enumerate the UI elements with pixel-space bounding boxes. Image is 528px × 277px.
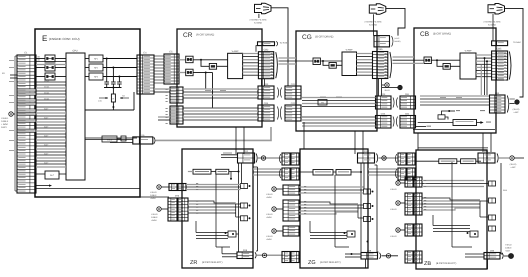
connector strip ZB4 (top right, straddles edge) <box>478 153 495 163</box>
mating bracket of ZR2 <box>256 154 257 163</box>
wires U1 to U2-U4 <box>85 58 89 60</box>
svg-text:SHLD: SHLD <box>384 89 390 92</box>
mating brackets CR4 <box>278 107 279 120</box>
wire CB bottom to ZB top pair <box>482 133 484 152</box>
long wires across CG lower half <box>302 97 376 99</box>
long wire inside E bottom <box>36 188 140 190</box>
capacitor C1 <box>106 58 108 60</box>
svg-text:CPU: CPU <box>72 50 77 53</box>
wire P3 stem <box>492 14 494 19</box>
wires CR5 to pair CR3 <box>183 88 258 90</box>
svg-text:(R CRT DEFLECT): (R CRT DEFLECT) <box>202 261 223 264</box>
wires to ZR4 <box>196 232 228 234</box>
wires into ZR9 from left <box>222 253 237 255</box>
shield circle W18 right of CG (filled) <box>382 87 398 89</box>
regulator box B1 in ZR <box>193 169 211 174</box>
wires ZG5 to pin symbols <box>299 186 364 188</box>
pin symbol ZG3a <box>364 189 371 194</box>
connector strip ZG6 left edge <box>283 200 299 221</box>
wires B1-B2 in ZR <box>188 171 193 173</box>
svg-text:(R CRT DRIVE): (R CRT DRIVE) <box>196 34 214 37</box>
svg-text:(+NOISE FILTER): (+NOISE FILTER) <box>365 21 382 24</box>
big mating bracket of CR2 <box>276 52 278 78</box>
svg-text:+NAVI: +NAVI <box>151 219 157 222</box>
svg-text:(+NOISE FILTER): (+NOISE FILTER) <box>484 21 501 24</box>
svg-text:BAND): BAND) <box>395 40 401 43</box>
connector pair CG4 in-half <box>376 116 392 129</box>
interior vertical wires ZG <box>334 175 336 247</box>
connector pair CB3 <box>490 95 506 113</box>
stub wire right of CG4-out <box>416 126 427 128</box>
svg-text:CG4: CG4 <box>381 112 386 115</box>
svg-text:CG1: CG1 <box>291 83 296 86</box>
wire P1 to CR right area <box>271 8 288 86</box>
noise filter plug P2 <box>369 4 386 15</box>
capacitor C3 <box>118 76 120 78</box>
wire rows from connector E1 to U1 upper pins <box>36 61 66 63</box>
vertical drop wires CR2 to CR3 <box>261 79 263 86</box>
harness bracket left of connector E1 <box>14 56 16 191</box>
outside vertical wire right of ZB <box>500 163 502 254</box>
interior vertical wires ZR <box>215 174 217 247</box>
wires into AB1 <box>418 122 453 124</box>
coil box L3 in CB <box>443 64 450 70</box>
shield circle W8 left of ZG <box>272 187 276 191</box>
outside vertical wire right of ZR <box>257 167 259 251</box>
wire CB bottom to ZB top left <box>417 133 419 148</box>
arrow box AB1 (to multi-display) at bottom of CB <box>453 120 477 126</box>
connector pair ZR5 (small, left edge) <box>169 184 177 191</box>
pin symbol ZR3b <box>241 203 248 208</box>
svg-text:I-SHLD: I-SHLD <box>505 244 512 247</box>
connector strip CR6 (lower left edge of CR) <box>170 106 183 124</box>
connector pair ZG10 bottom left <box>282 252 290 263</box>
svg-text:+NAVI: +NAVI <box>266 216 272 219</box>
connector strip E1 (left of ECU) <box>17 55 36 193</box>
mating bracket of ZB4 <box>497 154 498 163</box>
capacitor C2 <box>112 67 114 69</box>
top strip TB3 of CB <box>492 41 508 46</box>
connector strip E4 (right edge of E) <box>137 55 154 94</box>
fuse box F1 in CR <box>186 56 193 63</box>
svg-text:CG: CG <box>302 34 312 41</box>
wire CR bottom to ZR top pair <box>235 127 237 154</box>
svg-text:I-SHLD: I-SHLD <box>390 235 397 238</box>
connector pair CR4 out-half <box>285 105 301 121</box>
pin symbol ZR3a <box>241 184 248 189</box>
wires from E up into CR6 <box>158 119 170 121</box>
wires CG5 to CB inputs (gray) <box>393 56 415 58</box>
wires ZR area to ZG2 (gray) <box>253 168 282 170</box>
mating bracket of ZR9 <box>255 252 256 258</box>
outside vertical wire right of ZG <box>376 165 378 252</box>
connector pair ZR6 (left edge) <box>168 198 177 221</box>
svg-text:DLC: DLC <box>50 174 55 177</box>
connector pair CG3 in-half <box>376 96 392 109</box>
connector strip CB5 (right edge of CB) <box>492 51 508 80</box>
connector pair CR4 in-half <box>258 105 274 121</box>
vertical wire pair from ZG4 down <box>360 163 362 253</box>
vertical from ZB9 to bottom edge <box>487 259 489 269</box>
fuse box F3 in CG <box>313 58 320 65</box>
shield circle W3 right of CB3 (filled) <box>515 100 520 105</box>
svg-text:I-SHLD: I-SHLD <box>151 213 158 216</box>
small box N2 at bottom of E <box>121 136 126 141</box>
wire resistor R1 to ground node <box>112 102 114 107</box>
CRT driver block CG outline <box>296 31 377 131</box>
connector pair CR3 in-half <box>258 86 274 99</box>
regulator box B4 in ZG <box>336 170 351 176</box>
mating bracket of TB2 <box>392 36 393 46</box>
big mating bracket of CG5 <box>390 52 392 78</box>
svg-text:CG3: CG3 <box>381 93 386 96</box>
pin symbol ZG3b <box>364 204 371 209</box>
wires ZR5 to pin symbols <box>186 184 241 186</box>
mating brackets CG4 <box>393 117 394 127</box>
shield circle W15 left of ZB <box>396 228 400 232</box>
driver box U3 (noise filter 2) inside E <box>89 64 103 71</box>
wire ZG9 to ZB bottom left <box>382 255 399 257</box>
mating bracket of ZG4 <box>377 154 378 163</box>
deflection block ZB outline <box>416 150 487 269</box>
svg-text:(SHLD): (SHLD) <box>513 108 520 111</box>
interior vertical wires ZB <box>451 162 453 247</box>
wires ZG2 to B3, B3 to B4 <box>299 171 313 173</box>
wire rows from connector E1 to relays K1-K3 <box>36 58 45 60</box>
svg-text:W-B: W-B <box>503 189 508 192</box>
wires M3 to connector CB5 <box>476 54 492 56</box>
wire U1 right to mid bus <box>85 137 137 139</box>
interior bottom wire of CB <box>413 129 495 131</box>
big mating bracket of CB5 <box>509 52 511 80</box>
connector pair ZG1 (left edge top) <box>279 154 280 163</box>
amp box M2 in CG <box>342 52 357 76</box>
svg-text:CG5: CG5 <box>378 48 384 51</box>
label box N1 at bottom of E <box>102 136 117 142</box>
connector strip ZG5 left edge <box>283 185 299 195</box>
shield circle W7 on wire <box>262 253 266 257</box>
svg-text:+NAVI: +NAVI <box>266 238 272 241</box>
shield circle W5 left of ZR <box>157 185 161 189</box>
wire F1 to M1 <box>193 59 228 61</box>
pin number speckle texts <box>271 52 273 55</box>
svg-text:SG: SG <box>122 95 125 98</box>
connector pair CG3 out-half <box>400 96 416 109</box>
svg-text:(B CRT DEFLECT): (B CRT DEFLECT) <box>436 262 456 265</box>
connector pair ZG2 (left edge) <box>279 169 280 178</box>
svg-text:CR3: CR3 <box>264 83 269 86</box>
svg-text:V-AMP: V-AMP <box>346 49 353 52</box>
bracket right of SP1 <box>276 41 277 46</box>
svg-text:V-AMP: V-AMP <box>465 50 472 53</box>
svg-text:E: E <box>42 34 47 43</box>
svg-text:(+NOISE FILTER): (+NOISE FILTER) <box>250 19 267 22</box>
ground return wire <box>85 109 134 111</box>
annotation arrows at resistor R1 <box>99 97 108 99</box>
wires from E4 area into CR5 (gray) <box>154 88 170 90</box>
wires ZB6 to pin symbols <box>422 198 480 200</box>
ground bus wire below capacitors <box>104 87 122 89</box>
pin symbol ZB3d <box>489 226 496 231</box>
shield circle W13 left of ZB <box>396 181 400 185</box>
wires between B5-B6 <box>415 160 439 162</box>
svg-text:I-SHLD: I-SHLD <box>1 117 9 120</box>
junction group ZG8 <box>347 231 355 237</box>
svg-text:I-SHLD: I-SHLD <box>266 235 273 238</box>
svg-text:V-AMP: V-AMP <box>232 50 239 53</box>
wires ZB5 to pin symbols <box>422 180 484 182</box>
CRT driver block CB outline <box>414 28 496 133</box>
mating bracket of E6 <box>154 137 155 143</box>
deflection block ZG outline <box>300 149 368 268</box>
coil box L2 in CG <box>329 63 336 69</box>
connector pair ZB1 (left edge top) <box>395 154 396 163</box>
wires U2-U4 to connector E4 <box>103 58 137 60</box>
svg-text:CABLE: CABLE <box>1 120 9 123</box>
connector strip ZG7 left edge <box>283 226 299 236</box>
connector pair ZB5 left edge <box>405 177 413 187</box>
pin symbol ZB3b <box>489 198 496 203</box>
wire L1 to M1 <box>217 65 228 67</box>
wires M1 to connector CR2 <box>243 53 259 55</box>
connector pair ZB10 bottom left <box>405 251 413 263</box>
wire P2 to CG right area <box>386 8 405 35</box>
shield circle W12 right of ZB4 <box>510 156 514 160</box>
wires to ZB8 <box>433 225 470 227</box>
connector strip ZR2 (top right, straddles edge) <box>238 153 255 163</box>
svg-text:CB5: CB5 <box>497 48 502 51</box>
svg-text:GND1: GND1 <box>44 97 49 100</box>
svg-text:I-SHLD: I-SHLD <box>390 188 397 191</box>
svg-text:CABLE: CABLE <box>150 194 157 197</box>
connector strip E6 (below E4) <box>133 137 153 144</box>
ECU block E outline <box>35 29 140 197</box>
svg-text:(SHLD): (SHLD) <box>510 163 517 166</box>
wire branch to L1 <box>200 59 202 61</box>
wires M2 to connector CG5 <box>357 53 373 55</box>
svg-text:+ANT: +ANT <box>513 111 519 114</box>
connector strip ZG9 bottom right <box>361 253 378 260</box>
wires into ZR2 from left <box>221 154 238 156</box>
pin symbol ZB3a <box>489 181 496 186</box>
shield circle W14 left of ZB <box>396 201 400 205</box>
diagnostic box U5 bottom left in E <box>45 171 59 179</box>
svg-text:GND1: GND1 <box>44 79 49 82</box>
svg-text:TO RGB: TO RGB <box>280 42 288 45</box>
driver box U4 (noise filter 3) inside E <box>89 73 103 80</box>
regulator box B3 in ZG <box>313 170 333 176</box>
svg-text:CB: CB <box>420 31 429 38</box>
vertical drop wires CB5 to CB3 <box>480 64 482 95</box>
pin symbol ZG3c <box>364 217 371 222</box>
shielded wire ZR9 to ZG bottom (gray) <box>257 254 282 256</box>
svg-text:I-SHLD: I-SHLD <box>150 191 157 194</box>
coil box L1 in CR <box>209 64 216 70</box>
connector strip CR2 (right edge of CR) <box>258 52 273 79</box>
tiny wire-code speckles left of connector E1 <box>9 59 14 62</box>
connector strip CG5 (right edge of CG) <box>373 52 388 79</box>
regulator box B2 in ZR <box>216 169 229 174</box>
amp box M1 in CR <box>228 53 243 78</box>
wires ZG area to ZB2 (gray) <box>368 168 398 170</box>
shielded cable symbol W1 at left connector <box>9 112 13 116</box>
shield circle W16 right of ZB9 (filled) <box>508 253 513 258</box>
wire F2 across <box>193 72 206 74</box>
connector pair CG4 out-half <box>400 116 416 129</box>
shield circle W6 left of ZR lower <box>157 207 161 211</box>
svg-text:TO NAVI: TO NAVI <box>513 41 521 44</box>
microcomputer box U1 (main ECM) inside E <box>66 53 85 180</box>
svg-text:(+N.F.: (+N.F. <box>395 37 401 40</box>
wires ZG4 to ZB left (gray) <box>379 157 399 159</box>
shield circle W17 on wire <box>382 156 386 160</box>
connector strip ZR9 bottom right <box>237 252 253 259</box>
wire down from F2 node <box>205 73 207 89</box>
connector pair ZB7 left edge <box>405 224 413 236</box>
wires ZG6 to pin symbols <box>299 202 358 204</box>
svg-text:+NAVI: +NAVI <box>150 197 156 200</box>
svg-text:(G CRT DEFLECT): (G CRT DEFLECT) <box>320 261 341 264</box>
mating bracket of ZB9 <box>502 253 503 259</box>
wires E4 to E5 <box>154 55 164 57</box>
svg-text:CABLE: CABLE <box>151 216 158 219</box>
wire P2 stem down to CG <box>373 14 375 35</box>
shield circle W4 on wire <box>261 156 265 160</box>
wires ZR6 to pin symbols <box>188 201 236 203</box>
amp box M3 in CB <box>460 53 476 79</box>
svg-text:CABLE: CABLE <box>505 247 512 250</box>
fuse box F5 in CB <box>424 57 431 64</box>
svg-text:CG2: CG2 <box>291 102 296 105</box>
connector strip CR5 (lower left edge of CR) <box>170 87 183 103</box>
shield circle W9 left of ZG <box>272 207 276 211</box>
noise filter plug P1 <box>255 3 272 14</box>
small box F6 in CB lower area <box>438 115 445 119</box>
wire above ZB top edge <box>418 148 488 150</box>
fuse box F2 in CR <box>186 69 193 76</box>
wires into ZB9 from left <box>465 253 484 255</box>
shield circle W11 on wire <box>386 254 390 258</box>
svg-text:N. BAND: N. BAND <box>488 23 497 26</box>
svg-text:ZR: ZR <box>190 260 197 266</box>
wire P3 to CB right side <box>505 8 523 97</box>
stub wires at far left of connector E1 <box>10 74 17 76</box>
svg-text:(B CRT DRIVE): (B CRT DRIVE) <box>433 33 451 36</box>
wires CR6 to pair CR4 <box>183 107 258 109</box>
junction dot and drop in ZR <box>230 178 232 180</box>
wires across CB top <box>414 59 424 61</box>
resistor R1 vertical <box>112 88 114 95</box>
mating brackets CG3 <box>393 98 394 108</box>
wire P1 stem <box>258 14 260 18</box>
svg-text:ASSY: ASSY <box>1 126 7 129</box>
wires E5 to CR inputs (gray) <box>179 59 186 61</box>
connector strip ZG4 (top right, straddles edge) <box>358 153 375 163</box>
wire SP1 to CR2 <box>256 46 258 52</box>
mating brackets CR3 <box>278 88 279 98</box>
svg-text:I-SHLD: I-SHLD <box>390 208 397 211</box>
svg-text:GND1: GND1 <box>44 85 49 88</box>
svg-text:CR: CR <box>183 32 193 39</box>
junction group ZR4 <box>228 231 236 237</box>
wires ECM to connector E6 <box>85 139 133 141</box>
driver box U2 (noise filter 1) inside E <box>89 55 103 62</box>
small box F4 in CG lower area <box>318 100 327 106</box>
svg-text:+ANT: +ANT <box>510 166 516 169</box>
shielded wire ZR2 to ZG1 (gray) <box>258 157 282 159</box>
svg-text:I-SHLD: I-SHLD <box>266 193 273 196</box>
svg-text:(G CRT DRIVE): (G CRT DRIVE) <box>315 36 333 39</box>
vertical from ZG9 to bottom edge <box>365 259 367 268</box>
svg-text:+NAVI: +NAVI <box>266 196 272 199</box>
wires across CG top <box>296 60 313 62</box>
svg-text:1.5k: 1.5k <box>98 100 102 103</box>
svg-text:ZG: ZG <box>308 260 316 266</box>
pin symbol ZB3c <box>489 215 496 220</box>
relay box K1 inside E <box>45 55 55 62</box>
svg-text:CR2: CR2 <box>264 48 269 51</box>
svg-text:(ENGINE CONT. ECU): (ENGINE CONT. ECU) <box>49 37 80 41</box>
shield circle W10 left of ZG <box>272 229 276 233</box>
svg-text:ZB: ZB <box>424 261 431 267</box>
wire CG bottom to ZG top pair <box>354 131 356 154</box>
svg-text:N. BAND: N. BAND <box>369 23 378 26</box>
wire E bottom corner to ZR <box>140 196 169 198</box>
wires CR2 to CG inputs (gray) <box>279 57 297 59</box>
connector pair ZB6 left edge <box>405 193 413 215</box>
noise filter plug P3 <box>488 4 505 15</box>
wires to ZG8 <box>310 232 347 234</box>
wire P3 stem into TB3 <box>492 19 494 41</box>
connector pair ZB2 (left edge) <box>395 169 396 178</box>
interior vertical wire ZR mid <box>235 204 237 217</box>
vertical wire pair from ZR2 down <box>238 163 240 252</box>
mating bracket of ZG9 <box>380 253 381 259</box>
CRT driver block CR outline <box>177 29 262 127</box>
relay box K2 inside E <box>45 64 55 71</box>
shield circle W2 below CG5 <box>385 83 389 87</box>
svg-text:GND1: GND1 <box>44 91 49 94</box>
wire N1 to N2 <box>117 138 121 140</box>
svg-text:+ANT: +ANT <box>505 250 511 253</box>
regulator box B5 in ZB <box>439 159 457 164</box>
wires into ZG9 from left <box>345 253 361 255</box>
connector pair CR3 out-half <box>285 86 301 99</box>
connector strip ZB9 bottom right <box>484 253 500 260</box>
connector strip E5 <box>164 54 179 84</box>
wire CR4-out down to ZG top <box>303 122 305 149</box>
svg-text:CR4: CR4 <box>264 102 269 105</box>
wire rows from connector E1 to U1 lower pins <box>36 106 66 108</box>
vertical drop wires CG5 to CG3 <box>378 79 380 97</box>
mating bracket of CB3 <box>507 96 509 113</box>
svg-text:N. BAND: N. BAND <box>254 22 263 25</box>
junction group ZB8 <box>470 231 478 237</box>
pin symbol ZR3c <box>241 216 248 221</box>
svg-text:I-SHLD: I-SHLD <box>266 213 273 216</box>
relay box K3 inside E <box>45 73 55 80</box>
input strip TB2 top right of CG <box>374 36 390 47</box>
regulator box B6 in ZB <box>461 159 476 164</box>
deflection block ZR outline <box>182 149 253 268</box>
svg-text:+ NAVI: + NAVI <box>1 123 8 126</box>
short-pin strip SP1 above CR2 <box>258 42 275 46</box>
shielded wire E6 to CR bottom (gray) <box>156 127 271 140</box>
staircase wire from F6 <box>442 111 450 115</box>
long wires across CB lower half <box>420 95 489 97</box>
